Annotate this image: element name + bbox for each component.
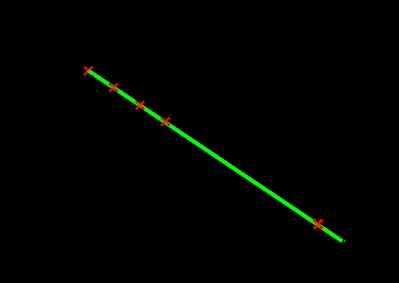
fit line glint through marker X4: [162, 120, 167, 123]
marker X5 lower arm speck: [317, 230, 318, 231]
data point marker X2 (over fit line): [109, 83, 118, 91]
fit line (green): [88, 70, 342, 241]
data point marker X3 (over fit line): [136, 101, 145, 109]
fit line glint through marker X2: [110, 86, 115, 89]
fit line end fragment: [344, 240, 345, 242]
marker X1 rising-diagonal stroke over line: [84, 67, 92, 75]
data point marker X5 (over fit line): [314, 219, 323, 228]
data point marker X4 (over fit line): [161, 117, 170, 125]
marker X1 lower-right arm tip (over line): [92, 75, 93, 76]
data point marker X1 (under fit line): [84, 67, 93, 75]
fit line glint through marker X3: [137, 103, 142, 106]
fit line glint through marker X5: [316, 223, 320, 226]
